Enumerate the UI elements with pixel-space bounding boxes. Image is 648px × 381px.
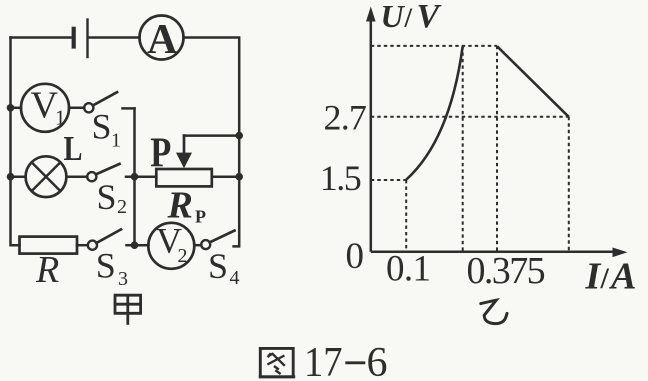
- svg-text:S: S: [97, 177, 117, 217]
- wire junction to voltmeter V2: [135, 244, 149, 247]
- svg-text:3: 3: [118, 268, 128, 290]
- label S4: [208, 246, 240, 289]
- curve rising (lamp U-I): [406, 46, 463, 180]
- label yi (graph caption): [481, 300, 507, 323]
- dashed line I=0.375 vertical: [496, 46, 498, 252]
- wire left vertical rail: [11, 38, 20, 246]
- svg-text:U: U: [381, 0, 406, 34]
- svg-text:1.5: 1.5: [320, 158, 361, 198]
- label S3: [96, 246, 128, 291]
- wiper P arrow: [176, 136, 192, 169]
- ammeter A: [140, 16, 184, 60]
- svg-text:S: S: [208, 246, 228, 286]
- wire resistor to switch S3: [77, 244, 88, 247]
- x axis: [371, 251, 614, 254]
- svg-text:S: S: [92, 106, 112, 146]
- dashed guide lines: [371, 46, 569, 252]
- x axis arrowhead: [613, 248, 628, 258]
- node middle rail lamp-row junction: [131, 173, 139, 181]
- wire junction to voltmeter V1: [11, 107, 22, 110]
- wire battery to ammeter: [89, 36, 140, 39]
- wire V2 to switch S4: [194, 244, 201, 247]
- voltmeter V2: [148, 223, 194, 269]
- svg-text:1: 1: [55, 106, 66, 130]
- dashed line 2.7V horizontal: [371, 116, 569, 118]
- node lamp-row left junction: [7, 173, 15, 181]
- node wiper right-rail junction: [235, 132, 243, 140]
- svg-text:P: P: [195, 207, 206, 227]
- switch S3: [88, 229, 121, 249]
- svg-text:S: S: [96, 246, 116, 286]
- svg-text:6: 6: [367, 340, 388, 381]
- switch S4: [201, 231, 234, 250]
- dashed line I=0.1 vertical: [405, 180, 407, 252]
- label U/V: [381, 0, 442, 35]
- label jia (circuit caption): [115, 295, 141, 325]
- dashed line Umax horizontal: [371, 45, 497, 47]
- wire top-left horizontal to battery: [11, 36, 72, 39]
- svg-text:/: /: [600, 262, 610, 295]
- svg-text:2: 2: [117, 196, 127, 218]
- wire middle vertical rail: [133, 108, 136, 245]
- node middle rail bottom junction: [131, 241, 139, 249]
- label V1: [31, 85, 66, 130]
- svg-text:P: P: [150, 131, 171, 177]
- svg-text:4: 4: [230, 267, 240, 289]
- switch S2: [87, 164, 119, 181]
- line falling (resistor U-I): [497, 46, 569, 117]
- wire S2 contact through junction to rheostat: [126, 175, 156, 178]
- label V2: [156, 220, 188, 267]
- dashed line line-end vertical: [568, 117, 570, 252]
- battery B1: [74, 20, 88, 58]
- svg-text:0.375: 0.375: [467, 250, 545, 292]
- wire wiper to right rail: [184, 134, 239, 137]
- voltmeter V1: [21, 84, 69, 132]
- svg-text:V: V: [417, 0, 442, 35]
- wire S3 contact to middle-rail junction: [127, 244, 135, 247]
- switch S1: [84, 92, 117, 112]
- label RP (rheostat value): [167, 185, 207, 227]
- svg-text:2.7: 2.7: [324, 97, 367, 137]
- svg-text:1: 1: [111, 130, 121, 152]
- wire V1 to switch S1: [69, 107, 84, 110]
- label S2: [97, 177, 128, 218]
- glyph tu box: [260, 348, 293, 376]
- svg-text:0.1: 0.1: [386, 249, 430, 290]
- lamp L: [26, 156, 67, 197]
- wire lamp to switch S2: [66, 175, 87, 178]
- rheostat RP body: [156, 169, 212, 186]
- svg-text:2: 2: [178, 245, 188, 267]
- dashed line curve-peak vertical: [462, 46, 464, 252]
- svg-text:I: I: [585, 255, 602, 297]
- label I/A: [585, 255, 637, 297]
- svg-text:L: L: [64, 129, 83, 168]
- node rheostat right-rail junction: [235, 173, 243, 181]
- svg-text:/: /: [404, 3, 413, 33]
- y axis: [370, 19, 373, 252]
- resistor R body: [20, 237, 78, 254]
- svg-text:A: A: [147, 17, 178, 63]
- graph axes: [371, 19, 614, 252]
- svg-text:R: R: [35, 249, 59, 291]
- svg-text:A: A: [609, 256, 636, 298]
- label S1: [92, 106, 122, 151]
- dashed line 1.5V horizontal: [371, 179, 406, 181]
- caption figure 17-6: [259, 340, 388, 381]
- y axis arrowhead: [366, 7, 376, 22]
- svg-text:0: 0: [346, 236, 365, 277]
- node V1 left junction: [7, 104, 15, 112]
- wire junction to lamp: [11, 175, 26, 178]
- wire S1 fixed contact into middle rail: [123, 107, 135, 110]
- wire rheostat right terminal to right rail: [212, 175, 239, 178]
- wire ammeter to top-right corner and right rail down to S4 contact: [184, 38, 240, 247]
- svg-text:17: 17: [304, 340, 343, 381]
